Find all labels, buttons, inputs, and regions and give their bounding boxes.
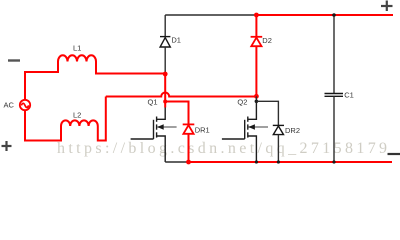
- svg-text:C1: C1: [344, 90, 354, 99]
- svg-text:D2: D2: [262, 36, 272, 45]
- diode D2: [251, 37, 263, 46]
- wire AC bottom to L2: [25, 110, 61, 140]
- DR2 foot dot: [277, 160, 280, 163]
- svg-text:AC: AC: [4, 101, 15, 110]
- Q1 arrow: [157, 124, 164, 129]
- top bus red segment: [256, 14, 393, 16]
- top bus D2 junction dot: [254, 13, 259, 18]
- wire D1 anode to node A: [164, 48, 166, 73]
- wire DR2 anode to bottom bus: [277, 135, 279, 162]
- wire branch to DR2: [256, 101, 278, 125]
- svg-text:L2: L2: [73, 111, 81, 120]
- inductor L2: [61, 120, 98, 126]
- wire branch to DR1: [165, 102, 188, 125]
- Q2 arrow: [248, 124, 255, 129]
- wire AC top to L1: [25, 62, 58, 100]
- C1 foot dot: [332, 160, 335, 163]
- AC source: [20, 100, 30, 110]
- wire L2 to vertical riser: [98, 97, 106, 141]
- wire Q2 drain node down: [255, 96, 257, 101]
- diode D1: [160, 37, 170, 47]
- wire DR1 anode to bottom bus: [188, 134, 190, 162]
- bottom bus junction dot: [186, 160, 191, 165]
- bottom bus black segment: [165, 161, 188, 163]
- output plus label: [381, 1, 393, 12]
- wire D1 cathode to top bus: [164, 15, 166, 37]
- svg-text:D1: D1: [171, 36, 181, 45]
- svg-text:L1: L1: [73, 44, 81, 53]
- svg-text:Q2: Q2: [237, 98, 247, 107]
- wire node A down to Q1 drain: [164, 74, 166, 108]
- svg-text:Q1: Q1: [148, 98, 158, 107]
- top bus black segment: [165, 14, 256, 16]
- node A junction dot: [163, 72, 168, 77]
- bottom bus red segment: [189, 161, 393, 163]
- diode D2 wire to top bus: [255, 15, 257, 37]
- diode DR1: [183, 124, 195, 133]
- Q1 body lead: [157, 126, 176, 128]
- input plus label: [2, 141, 12, 151]
- wire riser to Q2 drain node with hop over Q1 drain wire: [106, 93, 257, 97]
- wire L1 to node A: [96, 62, 165, 74]
- Q2 drain node dot: [254, 94, 259, 99]
- node DR1 branch dot: [163, 100, 167, 104]
- transistor Q2: [222, 101, 257, 162]
- output minus label: [388, 153, 400, 155]
- wire D2 anode down to Q2 drain node: [255, 46, 257, 96]
- DR2 branch junction dot: [255, 100, 259, 104]
- inductor L1: [58, 55, 96, 61]
- svg-text:DR1: DR1: [195, 125, 210, 134]
- capacitor C1 top wire: [333, 15, 335, 94]
- svg-text:https://blog.csdn.net/qq_27158: https://blog.csdn.net/qq_27158179: [57, 140, 390, 157]
- svg-text:DR2: DR2: [285, 126, 300, 135]
- capacitor C1 bottom wire: [333, 96, 335, 162]
- input minus label: [8, 59, 20, 61]
- diode DR2: [273, 125, 284, 134]
- C1 top bus junction dot: [332, 13, 336, 17]
- transistor Q1: [131, 108, 166, 163]
- capacitor C1: [325, 94, 344, 97]
- Q2 source foot dot: [255, 160, 258, 163]
- Q2 body lead: [249, 126, 268, 128]
